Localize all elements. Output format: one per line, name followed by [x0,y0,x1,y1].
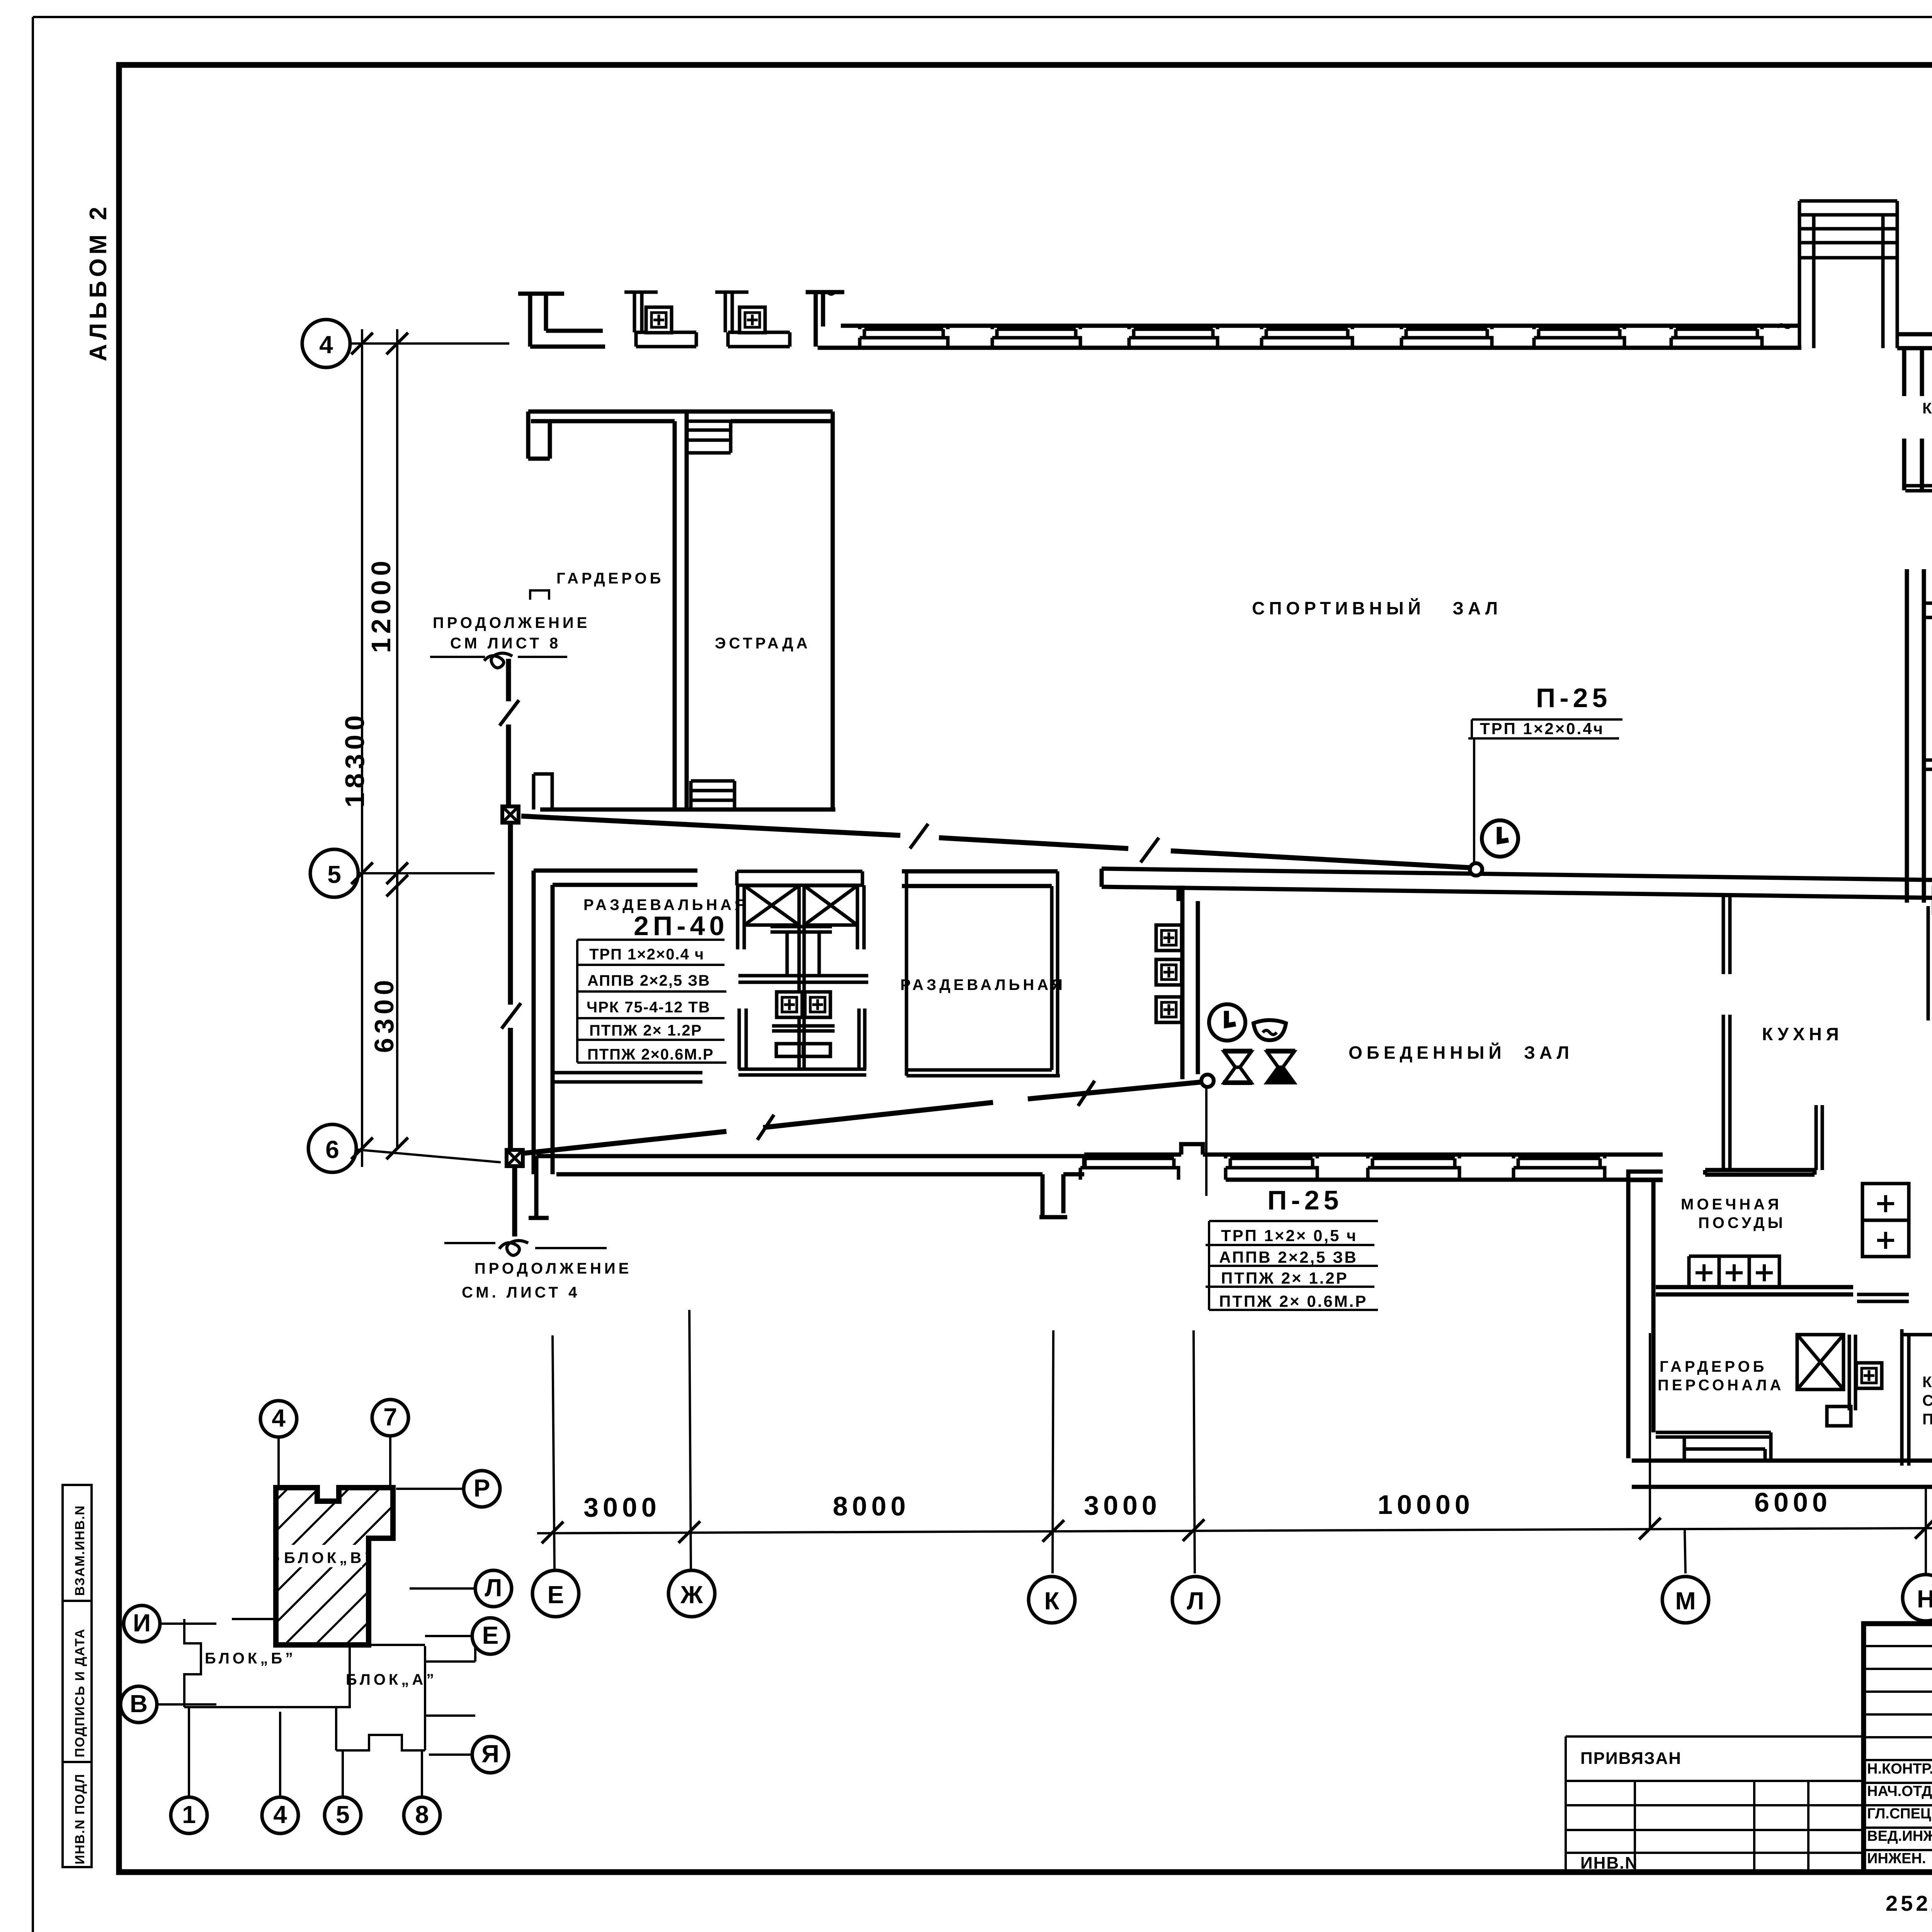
continuation marker sheet 4 [444,1243,607,1248]
svg-text:ПРОДОЛЖЕНИЕ: ПРОДОЛЖЕНИЕ [474,1260,632,1277]
svg-text:П-25: П-25 [1536,683,1611,713]
svg-text:ТРП 1×2×0.4ч: ТРП 1×2×0.4ч [1480,719,1604,738]
KEY PLAN [121,1400,512,1833]
axis circle 4 left [302,320,350,367]
speaker symbol [1253,1020,1286,1040]
dining left wall windows [1156,925,1182,951]
tech room left wall [1907,569,1924,903]
axis circle L bottom [1172,1577,1219,1623]
svg-text:СМ ЛИСТ 8: СМ ЛИСТ 8 [450,635,561,652]
svg-text:АЛЬБОМ 2: АЛЬБОМ 2 [85,203,112,361]
dressing room 1 bottom wall [553,1073,702,1082]
svg-text:БЛОК„Б”: БЛОК„Б” [205,1650,296,1667]
left wing bottom wall [529,1156,1084,1218]
divider snaryadnaya/tech [1924,603,1932,617]
toilets block top band [737,871,862,885]
main stamp outer [1864,1624,1932,1872]
block V hatched [276,1488,393,1645]
kitchen east wall [1816,1105,1822,1170]
svg-text:В: В [130,1690,148,1718]
BUILDING WALLS [518,201,1932,1522]
squiggle mark on top wall [821,291,834,294]
svg-text:КОМНАТА: КОМНАТА [1922,400,1932,417]
junction box 1 [502,806,519,823]
svg-text:8000: 8000 [833,1491,910,1521]
cloakroom stage divider wall [675,412,687,810]
axis 6 leader [356,1150,501,1162]
cable to clock node 1 [521,816,1473,868]
stage bottom stairs [691,781,735,810]
dining hall left wall [1179,886,1198,1079]
svg-text:ПЕРСОНАЛА: ПЕРСОНАЛА [1658,1377,1784,1394]
svg-text:ТРП 1×2× 0,5 ч: ТРП 1×2× 0,5 ч [1221,1226,1357,1245]
keyplan axis I [160,1622,216,1625]
pantry top walls [1902,1329,1932,1340]
vestibule top-right [1799,201,1897,348]
svg-text:4: 4 [319,331,333,359]
svg-text:6000: 6000 [1754,1487,1832,1517]
divider instructor/snaryadnaya [1905,486,1932,491]
svg-text:ЭСТРАДА: ЭСТРАДА [715,635,811,652]
toilet T-bar [770,927,832,976]
sports hall top wall corner [806,292,844,347]
extension N [1925,1487,1927,1573]
stage bottom wall [540,808,835,812]
window pier 1 top-left [624,292,696,347]
svg-text:Е: Е [482,1621,499,1649]
bench 3 cells [1689,1256,1779,1287]
building bottom wall [1632,1461,1932,1487]
svg-text:1: 1 [182,1801,196,1828]
svg-text:5: 5 [336,1801,350,1828]
svg-text:ИНЖЕН.: ИНЖЕН. [1867,1850,1926,1867]
staff cloakroom bottom wall [1656,1432,1771,1461]
node 1 riser [1473,738,1475,863]
svg-text:Ж: Ж [680,1581,703,1609]
svg-text:5: 5 [327,861,341,888]
svg-text:6: 6 [325,1136,339,1163]
clock symbol 2 [1209,1004,1245,1041]
dining hall bottom wall [1084,1144,1663,1180]
hourglass filled [1266,1051,1295,1083]
hourglass outline [1223,1051,1252,1083]
svg-text:И: И [133,1609,151,1637]
cable to node 2 [522,1082,1202,1153]
cloakroom top wall [528,412,833,459]
ROOM LABELS [556,400,1932,1428]
keyplan axis 1 [188,1707,190,1797]
extension Zh [689,1310,691,1570]
dim line 18300 [361,329,363,1167]
node 2 drop [1205,1087,1207,1196]
window pier 2 top-left [715,292,790,347]
cable break slash [502,1003,521,1029]
signature rows text [1867,1761,1932,1867]
toilet mid band [738,976,868,982]
left stamp boxes [63,1485,92,1867]
svg-text:ВЕД.ИНЖ.: ВЕД.ИНЖ. [1867,1828,1932,1844]
svg-text:18300: 18300 [340,711,370,808]
svg-text:6300: 6300 [369,976,399,1053]
axis circle K bottom [1029,1577,1075,1623]
extension M [1649,1333,1651,1530]
pilaster left of stage bottom [534,774,552,810]
svg-text:Л: Л [485,1574,502,1602]
svg-text:3000: 3000 [1084,1490,1161,1520]
COMMUNICATION CABLES [430,590,1622,1310]
svg-text:П-25: П-25 [1267,1185,1343,1215]
bottom dimension line [532,1310,1932,1623]
tech room bottom wall [1924,760,1932,827]
svg-text:ПОСУДЫ: ПОСУДЫ [1698,1214,1786,1231]
kitchen partition [1723,893,1730,1170]
svg-text:ТРП 1×2×0.4 ч: ТРП 1×2×0.4 ч [589,946,704,963]
stair treads top [687,421,731,453]
keyplan axis Ya [429,1753,472,1756]
sports hall top wall [818,326,1801,348]
svg-text:ПТПЖ 2× 0.6М.Р: ПТПЖ 2× 0.6М.Р [1219,1292,1367,1310]
svg-text:ВЗАМ.ИНВ.N: ВЗАМ.ИНВ.N [73,1505,87,1596]
dining south wall right segment [1705,1170,1815,1175]
keyplan axis 4 top [277,1437,280,1488]
riser cable vertical [509,659,515,1236]
svg-text:ГЛ.СПЕЦ.: ГЛ.СПЕЦ. [1867,1806,1932,1822]
axis circle N bottom [1903,1575,1932,1621]
porch wall top-left corner [518,294,605,347]
keyplan axis L [410,1587,475,1590]
svg-text:ПОДПИСЬ И ДАТА: ПОДПИСЬ И ДАТА [73,1628,87,1757]
dining bottom window bays [1080,1155,1605,1180]
wash basins [777,992,802,1017]
instructor room left wall [1904,348,1922,490]
extension K [1053,1330,1053,1573]
extension L [1194,1330,1195,1573]
right wing top wall [1897,334,1932,348]
svg-text:МОЕЧНАЯ: МОЕЧНАЯ [1681,1196,1782,1213]
junction box 2 [507,1150,523,1166]
svg-text:ИНВ.N ПОДЛ: ИНВ.N ПОДЛ [73,1773,87,1864]
keyplan axis 5 bottom [342,1750,344,1797]
svg-text:СМ. ЛИСТ 4: СМ. ЛИСТ 4 [462,1284,580,1301]
svg-text:10000: 10000 [1378,1490,1474,1520]
svg-text:СУХИХ: СУХИХ [1922,1392,1932,1409]
signature table [1864,1624,1932,1872]
svg-text:КЛАДОВАЯ: КЛАДОВАЯ [1922,1374,1932,1391]
svg-text:8: 8 [415,1801,429,1828]
block A outline [336,1645,475,1750]
svg-text:7: 7 [383,1403,397,1431]
axis circle 6 left [308,1124,356,1172]
cable break slash [500,700,519,726]
svg-text:РАЗДЕВАЛЬНАЯ: РАЗДЕВАЛЬНАЯ [900,976,1066,993]
svg-text:ИНВ.N: ИНВ.N [1580,1854,1638,1872]
axis circle 5 left [310,849,358,897]
svg-text:НАЧ.ОТД.: НАЧ.ОТД. [1867,1783,1932,1799]
top wall window bays [860,326,1762,348]
keyplan axis 7 top [389,1435,391,1488]
svg-text:АППВ 2×2,5 ЗВ: АППВ 2×2,5 ЗВ [1219,1248,1358,1266]
TITLE BLOCK [1566,1624,1932,1932]
corridor wall sports hall bottom [1102,869,1932,901]
toilets side walls [738,885,865,1069]
continuation marker sheet 8 [530,590,549,600]
svg-text:ЧРК 75-4-12 ТВ: ЧРК 75-4-12 ТВ [587,999,711,1016]
toilet lower bar and bench [772,1026,835,1056]
block B outline [184,1619,369,1707]
left dimension lines [302,320,509,1172]
dressing room 1 left wall [534,871,553,1174]
svg-text:ПРИВЯЗАН: ПРИВЯЗАН [1580,1749,1682,1768]
keyplan axis 8 bottom [421,1750,423,1797]
axis circle M bottom [1662,1577,1709,1623]
svg-text:ОБЕДЕННЫЙ ЗАЛ: ОБЕДЕННЫЙ ЗАЛ [1349,1043,1573,1063]
svg-text:25225-02: 25225-02 [1886,1891,1932,1915]
svg-text:ПРОДОЛЖЕНИЕ: ПРОДОЛЖЕНИЕ [433,614,590,631]
svg-text:Л: Л [1187,1587,1204,1615]
dressing room 2 bottom wall [906,1070,1060,1076]
svg-text:СПОРТИВНЫЙ ЗАЛ: СПОРТИВНЫЙ ЗАЛ [1252,598,1502,618]
svg-text:4: 4 [273,1801,287,1828]
privyazan table [1566,1736,1864,1872]
svg-text:К: К [1044,1587,1060,1615]
dressing room 2 walls [906,871,1058,1076]
svg-text:М: М [1675,1587,1696,1615]
axis circle Zh bottom [668,1570,715,1617]
svg-text:Р: Р [474,1474,490,1502]
node 2 [1201,1075,1214,1087]
keyplan axis 4 bottom [279,1712,281,1797]
stage right wall [831,412,835,810]
cold shop walls [1927,906,1930,1020]
kitchen bottom wall [1656,1287,1853,1294]
dressing room 2 top wall [902,871,1058,886]
svg-text:БЛОК„А”: БЛОК„А” [346,1671,437,1688]
svg-text:ПТПЖ 2× 1.2Р: ПТПЖ 2× 1.2Р [589,1022,702,1039]
svg-text:Н.КОНТР.: Н.КОНТР. [1867,1761,1932,1777]
svg-text:ПТПЖ 2× 1.2Р: ПТПЖ 2× 1.2Р [1221,1269,1349,1287]
dressing room 1 top wall [534,871,697,885]
dim line 12000/6300 [396,329,398,1150]
axis 5 leader [359,872,495,874]
svg-text:БЛОК„В”: БЛОК„В” [284,1549,375,1566]
bench 2 cells [1862,1184,1909,1257]
svg-text:ПРОДУКТОВ: ПРОДУКТОВ [1922,1411,1932,1428]
keyplan axis R [396,1488,464,1490]
svg-text:2П-40: 2П-40 [634,911,728,941]
svg-text:Е: Е [548,1581,564,1609]
svg-text:ГАРДЕРОБ: ГАРДЕРОБ [556,570,664,587]
svg-text:ГАРДЕРОБ: ГАРДЕРОБ [1660,1358,1767,1375]
toilets bottom band [738,1069,866,1075]
axis circle E bottom [532,1570,579,1617]
svg-text:АППВ 2×2,5 ЗВ: АППВ 2×2,5 ЗВ [587,972,710,989]
keyplan axis V [157,1703,216,1706]
svg-text:12000: 12000 [366,556,396,653]
svg-text:КУХНЯ: КУХНЯ [1762,1024,1843,1044]
svg-text:Н: Н [1917,1585,1932,1613]
keyplan axis E [425,1635,472,1637]
lift shaft [1797,1335,1855,1410]
extension E [553,1335,554,1570]
toilet central pole [799,885,804,1068]
clock symbol 1 [1482,820,1518,857]
svg-text:Я: Я [481,1740,499,1768]
lower block left wall [1628,1172,1663,1458]
svg-text:3000: 3000 [583,1492,661,1522]
svg-text:ПТПЖ 2×0.6М.Р: ПТПЖ 2×0.6М.Р [587,1046,714,1063]
axis 4 leader [350,342,509,345]
pantry dividers [1902,1335,1932,1466]
toilet cubicles with X [744,886,799,925]
node 1 [1470,863,1482,876]
svg-text:4: 4 [272,1404,286,1432]
